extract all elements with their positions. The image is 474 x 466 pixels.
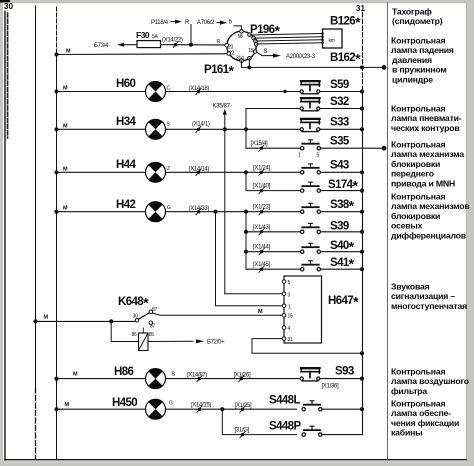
note air filter lamp (391, 367, 469, 396)
svg-text:осевых: осевых (391, 221, 423, 231)
svg-text:H450: H450 (112, 397, 137, 409)
svg-text:H86: H86 (114, 366, 134, 378)
wire branch S174 riser (246, 172, 303, 190)
speed sensor P161 (217, 30, 259, 63)
svg-text:привода и MNH: привода и MNH (391, 178, 455, 188)
svg-text:15: 15 (288, 314, 293, 320)
svg-text:S448L: S448L (269, 395, 300, 407)
wire riser to P118/4 R (151, 20, 191, 45)
svg-text:Звуковая: Звуковая (391, 282, 430, 292)
wire branch S39/S40/S41 riser (245, 212, 247, 270)
wire S39 row (244, 230, 303, 234)
svg-text:P118/4: P118/4 (151, 20, 169, 26)
svg-text:[X1/44]: [X1/44] (253, 245, 271, 251)
connector X14/15 (191, 403, 212, 413)
svg-text:S59: S59 (330, 79, 349, 91)
svg-text:F30: F30 (136, 30, 150, 40)
wire H44 to S43 (166, 170, 303, 174)
svg-text:Контрольная: Контрольная (391, 36, 445, 46)
svg-text:S448P: S448P (269, 421, 301, 433)
wire H44 row left (57, 171, 146, 173)
wire H60 row left (57, 91, 146, 93)
svg-text:лампа обеспе-: лампа обеспе- (391, 408, 451, 418)
svg-text:85: 85 (149, 332, 154, 338)
svg-text:в пружинном: в пружинном (392, 65, 447, 75)
svg-text:лампа механизма: лампа механизма (391, 149, 464, 159)
connector X15/4 (251, 141, 269, 151)
wire K648 coil branch (111, 321, 138, 341)
svg-text:лампа пневмати-: лампа пневмати- (391, 113, 462, 123)
svg-text:M: M (63, 166, 68, 172)
svg-text:кабины: кабины (391, 428, 422, 438)
svg-text:A200/X23-3: A200/X23-3 (286, 54, 316, 60)
wire H34 to S33 (166, 128, 300, 130)
wire S43 to bus 31 (320, 170, 364, 174)
wire K648 87 to H647 pin 15 (152, 309, 282, 315)
node H44 bus junction (54, 166, 68, 174)
svg-text:(X14/22): (X14/22) (162, 38, 183, 44)
wire S93 to bus 31 (321, 377, 365, 381)
label H34 (116, 116, 137, 128)
pressure switch S59 (300, 79, 349, 94)
svg-text:многоступенчатая: многоступенчатая (391, 301, 467, 311)
svg-text:S: S (264, 49, 268, 55)
note axle diff lock lamp (391, 192, 470, 241)
note spring cylinder pressure lamp (391, 36, 454, 85)
svg-text:M: M (63, 86, 68, 92)
wire H42 tap to H647 pin 1 (213, 210, 282, 306)
svg-text:Контрольная: Контрольная (391, 192, 445, 202)
svg-text:цилиндре: цилиндре (392, 74, 433, 84)
svg-text:(X14/87): (X14/87) (187, 372, 208, 378)
wire S40 to bus 31 (320, 250, 364, 254)
svg-text:[X1/36]: [X1/36] (322, 384, 340, 390)
switch S448L (269, 395, 322, 411)
switch S174 (301, 177, 359, 193)
lamp H34 (145, 119, 170, 139)
connector X1/36 (322, 384, 340, 390)
svg-text:Б73/4: Б73/4 (94, 43, 109, 49)
label H42 (116, 199, 136, 211)
note sound signal (391, 282, 467, 311)
svg-text:переднего: переднего (391, 169, 434, 179)
note pneumatic contours lamp (391, 104, 462, 133)
node H60 bus junction (54, 86, 68, 94)
switch S41 (301, 255, 355, 271)
wire K35/87 feed (arrow up) (213, 104, 283, 294)
svg-text:S39: S39 (330, 220, 349, 232)
svg-text:30: 30 (4, 2, 13, 11)
svg-text:[X1/24]: [X1/24] (253, 165, 271, 171)
wire K648 coil to Б72/0+ (148, 339, 225, 345)
wires P161 to B126 (250, 34, 322, 45)
wire H60 to S59 (166, 90, 300, 93)
wire S41 row (246, 268, 303, 270)
svg-text:M: M (73, 372, 78, 378)
wire S35 row (246, 147, 301, 149)
connector X1/44 (253, 245, 271, 255)
switch S39 (301, 220, 349, 233)
svg-text:(спидометр): (спидометр) (392, 16, 443, 26)
svg-text:Контрольная: Контрольная (391, 367, 445, 377)
label H44 (116, 159, 137, 171)
wire H86 row left (57, 378, 146, 380)
svg-text:15: 15 (248, 48, 253, 54)
wire H42 to S38 (166, 210, 303, 214)
svg-text:G: G (167, 205, 171, 211)
note front drive lock lamp (391, 140, 464, 189)
svg-text:лампа падения: лампа падения (391, 45, 454, 55)
connector X1/23 (253, 205, 271, 215)
wire S59 to bus 31 (321, 89, 365, 93)
connector X14/14 (189, 167, 210, 176)
svg-text:58: 58 (238, 34, 243, 40)
connector X1/43 (253, 225, 271, 235)
wire S32 to bus 31 (321, 106, 365, 110)
switch S40 (301, 239, 355, 255)
node R junction (189, 43, 193, 47)
connector X1/45 (253, 262, 271, 272)
wire S448P to bus 31 (322, 434, 362, 436)
svg-text:блокировки: блокировки (391, 211, 440, 221)
svg-text:H60: H60 (116, 78, 136, 90)
sound signal H647 (282, 276, 321, 343)
text column divider (387, 3, 389, 459)
connector X14/1 (192, 122, 210, 133)
node H34 bus junction (54, 123, 68, 131)
svg-text:M: M (65, 402, 70, 408)
connector X14/18 (189, 86, 210, 95)
wire A706/2 to pin b/58 (197, 20, 241, 30)
lamp H44 (145, 162, 170, 182)
label B126 (330, 14, 361, 30)
label H450 (112, 397, 137, 409)
wire S174 to bus 31 (320, 189, 364, 193)
wire S41 to bus 31 (320, 267, 364, 271)
wire fuse to node R (161, 44, 227, 46)
switch S448P (269, 421, 322, 437)
svg-text:H34: H34 (116, 116, 137, 128)
node H86 bus junction (54, 372, 78, 381)
label P161 (204, 62, 234, 78)
svg-text:S35: S35 (330, 136, 350, 148)
svg-text:31: 31 (356, 4, 365, 13)
wire S448L to bus 31 (322, 407, 364, 411)
svg-text:чения фиксации: чения фиксации (391, 418, 459, 428)
svg-text:Контрольная: Контрольная (391, 104, 445, 114)
lamp H450 (145, 399, 173, 419)
wire S to A200/X23-3 (257, 49, 316, 60)
svg-text:K35/87: K35/87 (213, 104, 231, 110)
tachograph B126 (321, 29, 342, 48)
wire H34 row left (57, 128, 146, 130)
wire H42 row left (57, 211, 146, 213)
label H647 (328, 293, 359, 309)
lamp H60 (145, 82, 170, 102)
svg-text:Тахограф: Тахограф (392, 7, 432, 17)
connector X14/33 (189, 206, 210, 215)
svg-text:дифференциалов: дифференциалов (391, 230, 466, 240)
note tachograph (392, 7, 443, 27)
switch S35 (298, 136, 350, 159)
connector 31/G (235, 428, 250, 438)
wire branch S32/S35 riser (245, 109, 247, 149)
switch S43 (301, 159, 349, 174)
switch S38 (301, 197, 355, 213)
lamp H86 (145, 369, 175, 389)
svg-text:M: M (44, 315, 49, 321)
svg-text:[X15/4]: [X15/4] (251, 141, 269, 147)
label H60 (116, 78, 136, 90)
svg-text:фильтра: фильтра (391, 386, 427, 396)
connector X1/24 (253, 165, 271, 175)
wire S35 to text pointer (320, 146, 386, 151)
pressure switch S93 (300, 365, 354, 381)
wire S39 to bus 31 (320, 230, 364, 234)
svg-text:Б72/0+: Б72/0+ (207, 340, 225, 346)
svg-text:ческих контуров: ческих контуров (391, 123, 459, 133)
node H34/branch junctions (223, 127, 248, 131)
svg-text:31: 31 (288, 337, 293, 343)
svg-text:давления: давления (392, 55, 432, 65)
svg-text:S33: S33 (330, 116, 349, 128)
svg-text:блокировки: блокировки (391, 159, 440, 169)
label Б73/4 (off-page) with arrow (94, 43, 137, 49)
note cab lock lamp (391, 399, 459, 438)
bus 30 (4, 2, 13, 138)
wire H86 to S93 (166, 378, 301, 380)
svg-text:S32: S32 (330, 96, 349, 108)
svg-text:M: M (63, 206, 68, 212)
svg-text:H44: H44 (116, 159, 137, 171)
node H450 bus junction (54, 402, 69, 411)
svg-text:S93: S93 (335, 365, 354, 377)
svg-text:G: G (169, 401, 173, 407)
connector X1/26 (234, 372, 252, 382)
svg-text:[31/G]: [31/G] (235, 428, 250, 434)
bus lamp-feed line (56, 7, 58, 459)
wire M row (bus to P161 pin 22) (54, 49, 227, 57)
connector X14/22 (162, 38, 183, 48)
wire S33 to bus 31 (321, 127, 365, 131)
svg-text:M: M (258, 309, 263, 315)
wire P161 pin 31d to text pointer (ground 31) (242, 58, 387, 70)
lamp H42 (145, 202, 171, 222)
svg-text:M: M (66, 49, 71, 55)
wire S32 row (246, 108, 300, 110)
svg-text:Z: Z (167, 166, 170, 172)
svg-text:[X1/43]: [X1/43] (253, 225, 271, 231)
connector X1/40 (253, 184, 271, 194)
connector X1/25 (235, 403, 253, 413)
wire H450 row left (57, 408, 146, 410)
svg-text:H42: H42 (116, 199, 136, 211)
svg-text:M: M (63, 123, 68, 129)
svg-text:km: km (329, 38, 335, 44)
svg-text:5A: 5A (152, 34, 158, 40)
svg-text:Контрольная: Контрольная (391, 399, 445, 409)
svg-text:лампа механизмов: лампа механизмов (391, 201, 470, 211)
relay K648 (118, 294, 157, 350)
connector X14/87 (187, 372, 208, 382)
svg-text:сигнализация –: сигнализация – (391, 291, 455, 301)
svg-text:лампа воздушного: лампа воздушного (391, 376, 469, 386)
bus M (left feed line) (35, 6, 37, 459)
label P196 (250, 22, 280, 38)
fuse F30 5A (136, 30, 161, 48)
label H86 (114, 366, 134, 378)
svg-text:Контрольная: Контрольная (391, 140, 445, 150)
bus 31 (356, 4, 365, 435)
svg-text:A706/2: A706/2 (197, 20, 215, 26)
svg-text:[X1/40]: [X1/40] (253, 184, 271, 190)
wire S38 to bus 31 (320, 210, 364, 214)
svg-text:[X1/45]: [X1/45] (253, 262, 271, 268)
svg-text:86: 86 (132, 332, 137, 338)
node H42 bus junction (54, 206, 68, 214)
label B162 (330, 50, 361, 66)
wire S40 row (244, 250, 303, 254)
pressure switch S32 (300, 96, 349, 111)
svg-text:[X1/23]: [X1/23] (253, 205, 271, 211)
wire H647 pin31 to bus 31 (252, 339, 364, 356)
pressure switch S33 (300, 116, 349, 131)
wire M to K648 (33, 315, 135, 324)
svg-text:S43: S43 (330, 159, 349, 171)
wire H450 to S448L (166, 407, 297, 411)
wire branch to S448P row (222, 409, 296, 434)
